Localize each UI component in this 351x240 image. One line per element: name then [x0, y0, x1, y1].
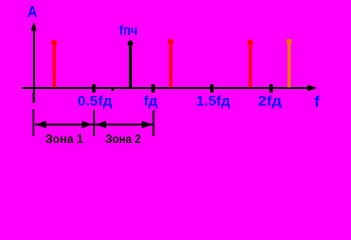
delimiter left (below origin): [33, 92, 35, 136]
tick 0.5fd: [92, 84, 96, 92]
svg-text:A: A: [27, 4, 37, 21]
horizontal axis f: [22, 85, 318, 92]
svg-text:0.5fд: 0.5fд: [78, 93, 113, 108]
spectral line 4 (red): [247, 40, 253, 88]
svg-text:1.5fд: 1.5fд: [196, 93, 230, 108]
dimension line zone 1: [35, 121, 93, 129]
small bump below axis: [111, 89, 113, 91]
svg-text:2fд: 2fд: [258, 93, 282, 108]
svg-text:f: f: [314, 94, 320, 111]
svg-text:fпч: fпч: [119, 22, 137, 38]
tick 1.5fd: [210, 84, 214, 92]
dimension line zone 2: [95, 121, 153, 129]
delimiter middle: [93, 110, 95, 136]
spectral line 1 (red): [51, 40, 57, 88]
svg-text:Зона 2: Зона 2: [105, 132, 141, 146]
spectral line 5 (orange): [286, 39, 292, 88]
delimiter right: [153, 110, 155, 136]
vertical axis A: [31, 22, 37, 103]
tick 2fd: [269, 84, 273, 92]
tick fd: [151, 84, 155, 92]
spectral line 3 (red): [168, 39, 174, 88]
svg-text:Зона 1: Зона 1: [45, 132, 83, 146]
spectral line 2 (black, fpch): [127, 40, 133, 87]
svg-text:fд: fд: [144, 93, 158, 108]
